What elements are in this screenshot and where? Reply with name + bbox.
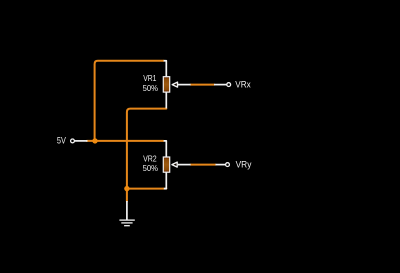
svg-text:VR2: VR2 [143, 153, 157, 163]
svg-text:50%: 50% [143, 83, 159, 93]
svg-text:VRx: VRx [235, 80, 251, 90]
svg-text:VRy: VRy [236, 160, 252, 170]
svg-text:50%: 50% [143, 163, 159, 173]
svg-text:VR1: VR1 [143, 73, 156, 83]
svg-text:5V: 5V [57, 135, 67, 145]
